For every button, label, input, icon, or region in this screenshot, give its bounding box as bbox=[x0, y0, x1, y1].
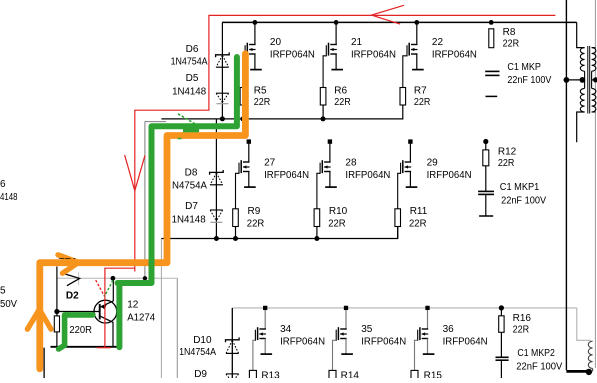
svg-text:220R: 220R bbox=[69, 325, 92, 336]
svg-text:D8: D8 bbox=[185, 168, 198, 179]
svg-text:C1 MKP2: C1 MKP2 bbox=[517, 348, 555, 359]
svg-text:22R: 22R bbox=[328, 219, 346, 230]
svg-text:D9: D9 bbox=[194, 369, 207, 378]
svg-text:27: 27 bbox=[264, 158, 276, 169]
svg-text:22R: 22R bbox=[334, 97, 351, 108]
svg-text:22R: 22R bbox=[503, 38, 519, 49]
svg-text:IRFP064N: IRFP064N bbox=[345, 170, 390, 181]
svg-text:IRFP064N: IRFP064N bbox=[270, 50, 315, 61]
svg-text:29: 29 bbox=[427, 158, 439, 169]
svg-text:R6: R6 bbox=[334, 86, 347, 97]
svg-text:D2: D2 bbox=[66, 290, 79, 301]
svg-text:1N4148: 1N4148 bbox=[172, 87, 206, 98]
svg-text:1N4754A: 1N4754A bbox=[171, 57, 208, 68]
svg-text:R10: R10 bbox=[329, 206, 348, 217]
svg-text:IRFP064N: IRFP064N bbox=[432, 50, 477, 61]
svg-text:22nF 100V: 22nF 100V bbox=[507, 75, 551, 86]
svg-text:R9: R9 bbox=[248, 206, 261, 217]
svg-text:R11: R11 bbox=[410, 206, 428, 217]
svg-text:A1274: A1274 bbox=[127, 313, 155, 324]
svg-text:21: 21 bbox=[351, 37, 363, 48]
svg-text:D5: D5 bbox=[186, 73, 199, 84]
svg-text:IRFP064N: IRFP064N bbox=[264, 170, 309, 181]
svg-text:22R: 22R bbox=[409, 219, 427, 230]
svg-text:22R: 22R bbox=[498, 158, 515, 169]
svg-text:R5: R5 bbox=[254, 86, 267, 97]
svg-text:R13: R13 bbox=[261, 370, 280, 378]
svg-text:22nF 100V: 22nF 100V bbox=[516, 362, 562, 373]
svg-text:N4754A: N4754A bbox=[172, 180, 207, 191]
svg-text:22R: 22R bbox=[513, 324, 530, 335]
svg-text:1N4148: 1N4148 bbox=[172, 214, 206, 225]
svg-text:6: 6 bbox=[0, 179, 6, 190]
svg-text:22R: 22R bbox=[414, 97, 431, 108]
svg-text:IRFP064N: IRFP064N bbox=[351, 50, 396, 61]
svg-text:50V: 50V bbox=[0, 299, 17, 310]
svg-text:R8: R8 bbox=[503, 27, 516, 38]
svg-text:R12: R12 bbox=[498, 147, 517, 158]
svg-text:34: 34 bbox=[280, 324, 292, 335]
svg-text:22R: 22R bbox=[247, 219, 264, 230]
svg-text:R16: R16 bbox=[513, 313, 532, 324]
svg-text:5: 5 bbox=[0, 286, 6, 297]
svg-text:1N4754A: 1N4754A bbox=[179, 347, 216, 358]
svg-text:4148: 4148 bbox=[0, 192, 18, 203]
svg-text:R15: R15 bbox=[424, 370, 443, 378]
svg-text:28: 28 bbox=[345, 158, 357, 169]
svg-text:IRFP064N: IRFP064N bbox=[427, 170, 472, 181]
svg-text:R7: R7 bbox=[414, 86, 427, 97]
svg-text:22R: 22R bbox=[254, 97, 270, 108]
svg-text:IRFP064N: IRFP064N bbox=[280, 337, 325, 348]
svg-text:R14: R14 bbox=[341, 370, 360, 378]
svg-text:22: 22 bbox=[432, 37, 444, 48]
svg-text:22nF 100V: 22nF 100V bbox=[501, 196, 546, 207]
svg-text:20: 20 bbox=[270, 37, 282, 48]
svg-text:35: 35 bbox=[361, 324, 373, 335]
svg-text:C1 MKP: C1 MKP bbox=[507, 62, 541, 73]
svg-text:IRFP064N: IRFP064N bbox=[361, 337, 406, 348]
svg-text:D10: D10 bbox=[193, 335, 212, 346]
svg-text:D6: D6 bbox=[186, 44, 199, 55]
svg-text:IRFP064N: IRFP064N bbox=[443, 337, 488, 348]
svg-text:12: 12 bbox=[127, 300, 139, 311]
svg-text:D7: D7 bbox=[185, 201, 198, 212]
svg-text:C1 MKP1: C1 MKP1 bbox=[500, 182, 540, 193]
svg-text:36: 36 bbox=[443, 324, 455, 335]
